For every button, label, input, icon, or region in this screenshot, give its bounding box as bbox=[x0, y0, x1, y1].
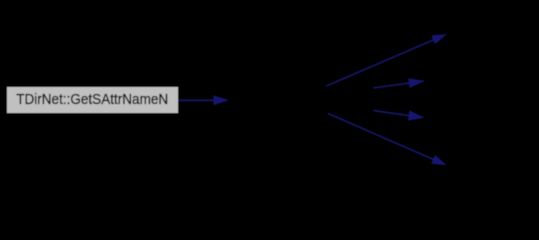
svg-text:TDirNet::GetSAttrNameN: TDirNet::GetSAttrNameN bbox=[16, 91, 168, 108]
